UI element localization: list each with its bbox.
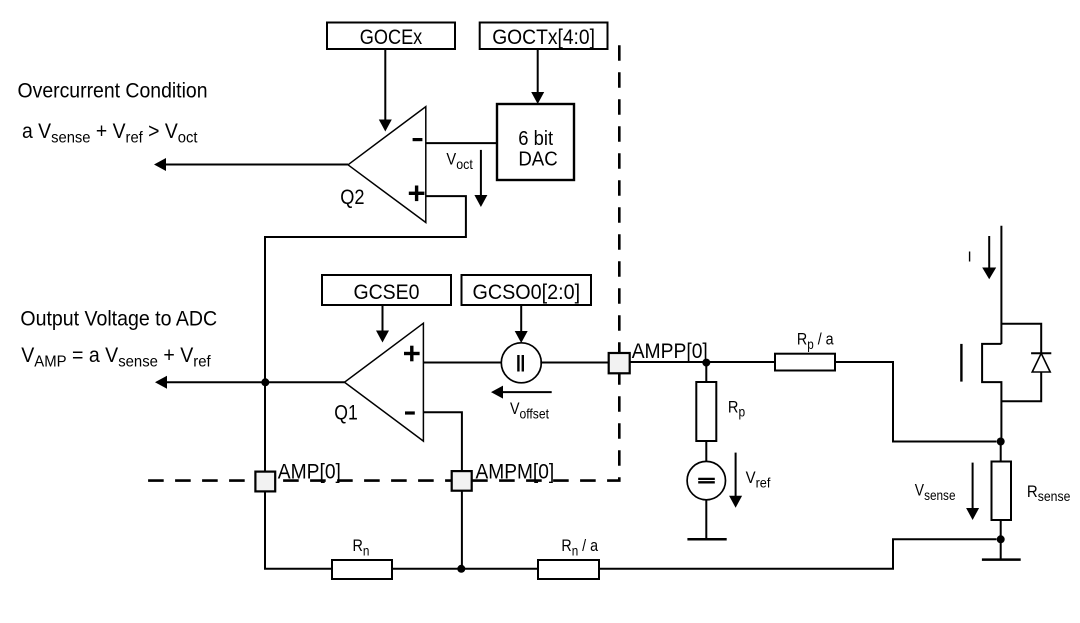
wire Q1 + to offset source [423, 362, 501, 364]
resistor Rn [332, 537, 392, 579]
V_oct arrow [474, 150, 487, 207]
current I arrow [982, 236, 996, 279]
arrow GOCEx to Q2 [379, 49, 392, 132]
wire Q2 feedback from node A [265, 196, 466, 381]
svg-text:GCSE0: GCSE0 [353, 281, 419, 304]
body diode D1 [1001, 324, 1051, 402]
Q2 output arrow [154, 158, 348, 171]
op-amp Q1 [334, 323, 423, 441]
chip boundary dashed line [146, 45, 619, 480]
wire Rn/a to Rsense bottom node [599, 539, 997, 569]
node drain-source junction [997, 438, 1005, 446]
arrow GCSE0 to Q1 [376, 305, 389, 343]
node B junction [457, 565, 465, 573]
arrow GCSO0 to offset source [515, 305, 528, 343]
svg-text:AMP[0]: AMP[0] [278, 461, 341, 484]
wire Rp/a to drain node [835, 362, 997, 442]
svg-text:Q2: Q2 [340, 186, 364, 209]
voltage source Vref [687, 461, 725, 499]
svg-text:GOCTx[4:0]: GOCTx[4:0] [492, 26, 595, 49]
V_offset arrow [491, 386, 552, 399]
svg-text:a Vsense + Vref > Voct: a Vsense + Vref > Voct [22, 120, 198, 147]
wire drain top [1000, 226, 1002, 344]
pad AMP[0] [255, 461, 341, 492]
svg-text:Overcurrent Condition: Overcurrent Condition [18, 79, 208, 103]
resistor Rp/a [775, 330, 835, 370]
svg-text:Output Voltage to ADC: Output Voltage to ADC [20, 306, 217, 330]
node A junction [261, 378, 269, 386]
wire junction to Rsense [1000, 442, 1002, 462]
svg-text:DAC: DAC [518, 148, 557, 170]
wire Rp to Vref [705, 441, 707, 462]
wire Rp top [705, 362, 707, 382]
svg-text:AMPM[0]: AMPM[0] [476, 461, 555, 484]
6 bit DAC U1 [497, 104, 574, 180]
node AMPP junction [702, 359, 710, 367]
wire node A to AMP[0] pad [264, 382, 266, 471]
ground under Rsense [982, 539, 1021, 559]
resistor Rsense [992, 462, 1071, 521]
register box GCSE0 [322, 275, 451, 305]
svg-text:GCSO0[2:0]: GCSO0[2:0] [473, 281, 581, 304]
V_sense arrow [966, 463, 979, 520]
svg-text:GOCEx: GOCEx [360, 26, 423, 49]
resistor Rn/a [538, 537, 599, 579]
node Rsense bottom junction [997, 535, 1005, 543]
Q1 output arrow [155, 376, 345, 389]
wire Rsense to bottom node [1000, 520, 1002, 539]
ground under Vref [687, 500, 726, 540]
wire offset source to AMPP[0] [540, 362, 609, 364]
wire Rn to node B [392, 568, 538, 570]
wire AMP[0] to Rn [265, 491, 332, 569]
svg-text:AMPP[0]: AMPP[0] [632, 340, 708, 363]
pad AMPM[0] [452, 461, 555, 491]
transistor Q3 [961, 344, 1001, 442]
offset source U2 [501, 343, 541, 383]
arrow GOCTx to DAC [531, 49, 544, 104]
register box GOCTx[4:0] [480, 23, 608, 50]
pad AMPP[0] [609, 340, 708, 374]
wire Q1 - to AMPM[0] [423, 412, 462, 471]
wire AMPP to Rp/a [629, 361, 775, 363]
wire DAC to Q2 inverting input [426, 142, 497, 144]
svg-text:Q1: Q1 [334, 402, 358, 425]
svg-text:6 bit: 6 bit [518, 128, 553, 150]
register box GCSO0[2:0] [462, 275, 592, 305]
register box GOCEx [327, 23, 455, 50]
wire AMPM[0] to node B [461, 491, 463, 569]
resistor Rp [696, 382, 745, 441]
Vref arrow [729, 453, 742, 508]
comparator Q2 [340, 107, 426, 223]
svg-text:I: I [968, 249, 972, 266]
